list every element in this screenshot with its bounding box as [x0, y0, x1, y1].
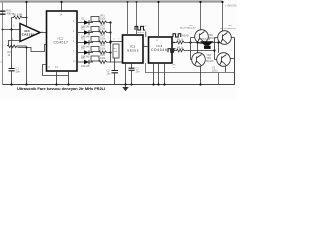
- ground symbol: [125, 85, 127, 88]
- svg-text:CD4046: CD4046: [151, 48, 168, 52]
- svg-text:R5 1k: R5 1k: [177, 39, 184, 42]
- wire IC3-IC4 link: [143, 46, 149, 48]
- node junction dot: [25, 83, 27, 85]
- svg-text:CA3130: CA3130: [22, 33, 35, 37]
- resistor R1 feedback: [12, 16, 27, 19]
- pin stubs IC4 outputs: [172, 43, 175, 51]
- trimmer VR1: [91, 17, 99, 22]
- wire bottom rail: [3, 84, 236, 86]
- wire TR2 to right border: [231, 37, 234, 39]
- node junction dot: [2, 29, 4, 31]
- svg-text:R6 1k: R6 1k: [177, 47, 184, 50]
- resistor R6: [172, 49, 214, 52]
- svg-text:R1 10M: R1 10M: [13, 13, 22, 17]
- transistor TR2: [218, 31, 232, 45]
- wire feedback right: [26, 2, 28, 27]
- output row 5: [77, 54, 111, 68]
- svg-text:~40kHz: ~40kHz: [136, 32, 145, 34]
- wire IC4 bottom pins: [154, 63, 165, 85]
- wire feedback left: [11, 18, 13, 30]
- wire summing bus: [111, 23, 123, 63]
- op-amp IC1 CA3130: [20, 24, 40, 42]
- wire output return: [218, 73, 220, 85]
- wire speaker line: [198, 43, 219, 53]
- svg-text:400ST160: 400ST160: [199, 38, 211, 41]
- node junction dot: [189, 41, 191, 43]
- wire TR1 TR3 bases: [191, 38, 195, 60]
- pin numbers IC2 outputs: [73, 21, 76, 63]
- svg-text:Ultrasonik Fare kovucu deneya: Ultrasonik Fare kovucu deneyan 2tr MHs F…: [17, 86, 105, 91]
- output row 3: [77, 35, 112, 49]
- capacitor C3: [131, 63, 133, 85]
- wire right border: [234, 38, 236, 85]
- svg-text:BD135: BD135: [206, 60, 214, 63]
- wire IC2 ground pins: [57, 71, 69, 85]
- IC2 CD4017 box: [47, 11, 78, 71]
- svg-text:40kHz: 40kHz: [182, 35, 190, 38]
- speaker LS1 horn: [200, 41, 214, 46]
- svg-text:100k: 100k: [100, 17, 106, 20]
- node junction dot: [10, 28, 12, 30]
- resistor R3 vertical box: [113, 44, 119, 58]
- output row 1: [77, 15, 112, 29]
- IC3 NE555 box: [123, 35, 144, 63]
- svg-text:100k: 100k: [100, 37, 106, 40]
- power rail +9V top: [0, 0, 223, 2]
- diode D1: [82, 22, 93, 24]
- svg-text:BC547(BD135): BC547(BD135): [180, 28, 196, 30]
- wire TR2 TR4 bases: [215, 38, 219, 60]
- output row 4: [77, 45, 112, 59]
- svg-text:10u: 10u: [107, 73, 112, 76]
- wire TR3 emitter: [200, 66, 202, 84]
- transistor TR4: [217, 53, 231, 67]
- wire left border: [2, 2, 4, 85]
- svg-text:+ 9V/0.5A: + 9V/0.5A: [225, 4, 237, 8]
- transistor TR1: [195, 30, 209, 44]
- wire bus to IC3: [111, 41, 123, 43]
- svg-text:100k: 100k: [100, 47, 106, 50]
- wire IC4 pin stub: [145, 32, 147, 38]
- resistor R5: [172, 41, 198, 44]
- node junction dot: [10, 83, 12, 85]
- wire op-amp output: [40, 32, 47, 34]
- svg-text:1N4148: 1N4148: [81, 65, 90, 68]
- svg-text:100k: 100k: [100, 57, 106, 60]
- wire inverting to ground: [18, 45, 47, 85]
- transistor TR3: [192, 53, 206, 67]
- square wave symbol IC3 out: [135, 26, 145, 30]
- wire TR1 collector: [200, 2, 202, 30]
- wire IC4 power pin: [158, 2, 160, 37]
- transducer RX1 on left border: [0, 11, 6, 14]
- svg-text:10n: 10n: [136, 71, 141, 74]
- svg-text:10n: 10n: [16, 70, 21, 74]
- wire pin stub: [77, 22, 82, 24]
- IC4 CD4046 box: [149, 37, 173, 63]
- svg-text:100n: 100n: [212, 69, 218, 72]
- square wave symbol lower: [168, 49, 175, 52]
- wire TR4 emitter: [225, 66, 227, 72]
- svg-text:BC547(BD135): BC547(BD135): [220, 28, 236, 30]
- output row 2: [77, 25, 112, 39]
- wire TR4 to right border: [230, 58, 234, 60]
- wire IC3 power pins: [128, 2, 137, 35]
- wire TR2 collector: [222, 2, 224, 31]
- wire IC3 to mid rail: [146, 63, 235, 73]
- svg-text:CD4017: CD4017: [54, 41, 69, 45]
- square wave symbol upper: [173, 34, 181, 37]
- wire IC2 Vdd pin: [61, 2, 63, 11]
- svg-text:100k: 100k: [100, 27, 106, 30]
- wire noninverting input: [3, 29, 21, 31]
- resistor R2 inverting input: [9, 41, 21, 46]
- capacitor C1: [11, 30, 13, 85]
- wire IC3 ground pin: [125, 63, 127, 85]
- svg-text:NE555: NE555: [127, 49, 139, 53]
- capacitor C2: [114, 58, 116, 85]
